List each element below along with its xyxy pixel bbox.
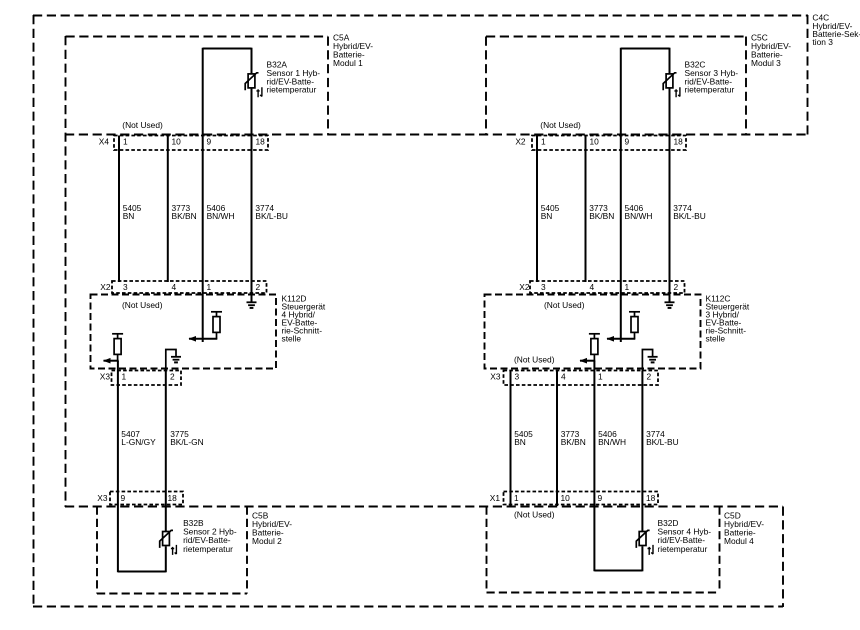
battery module box C5C (486, 36, 746, 38)
battery section inner boundary left vertical (65, 36, 67, 507)
wire 3775 BK/L-GN upper segment (165, 371, 167, 532)
sensor loop top wire C5C (621, 48, 670, 50)
wire 3773 BK/BN lower right (556, 371, 558, 506)
svg-text:(Not Used): (Not Used) (122, 300, 163, 310)
svg-text:2: 2 (647, 372, 652, 382)
connector X2 left (112, 281, 267, 293)
svg-text:X3: X3 (97, 493, 108, 503)
svg-text:X1: X1 (490, 493, 501, 503)
ground symbol inside K112D under X2 pin 2 (247, 301, 257, 303)
battery section box C4C outer frame right edge (807, 15, 809, 135)
wire 3774 BK/L-BU pin18 upper segment right (669, 48, 671, 74)
svg-text:4: 4 (590, 282, 595, 292)
svg-text:18: 18 (646, 493, 656, 503)
svg-text:(Not Used): (Not Used) (544, 300, 585, 310)
svg-text:Modul 2: Modul 2 (252, 536, 282, 546)
sensor loop top wire C5A (203, 48, 252, 50)
connector X3 upper left (112, 371, 182, 386)
battery module box C5D (486, 507, 488, 593)
battery module box C5B (96, 507, 98, 594)
wire 3774 BK/L-BU pin18 lower segment right (669, 88, 671, 303)
ground symbol inside K112C under X2 pin 2 (665, 301, 675, 303)
svg-text:9: 9 (598, 493, 603, 503)
svg-text:rietemperatur: rietemperatur (183, 544, 233, 554)
connector X1 (504, 492, 659, 505)
svg-text:BN: BN (541, 211, 553, 221)
connector X3 right (504, 371, 659, 386)
svg-text:1: 1 (123, 137, 128, 147)
svg-text:stelle: stelle (282, 334, 302, 344)
wire 3773 BK/BN upper right (585, 136, 587, 283)
svg-text:BK/L-BU: BK/L-BU (673, 211, 706, 221)
wire 3774 BK/L-BU lower right bottom segment (641, 546, 643, 571)
battery section box C4C outer frame left edge (33, 15, 35, 607)
svg-text:X3: X3 (490, 372, 501, 382)
svg-text:X2: X2 (100, 282, 111, 292)
svg-text:Modul 4: Modul 4 (724, 536, 754, 546)
svg-text:tion 3: tion 3 (812, 37, 833, 47)
svg-text:9: 9 (121, 493, 126, 503)
svg-text:1: 1 (625, 282, 630, 292)
connector X3 lower left (110, 492, 183, 505)
svg-text:rietemperatur: rietemperatur (685, 85, 735, 95)
svg-text:X4: X4 (99, 137, 110, 147)
thermistor B32D (639, 532, 646, 546)
wire 3774 BK/L-BU pin18 upper segment (251, 48, 253, 74)
wire 3774 BK/L-BU pin18 lower segment (251, 88, 253, 303)
svg-text:2: 2 (674, 282, 679, 292)
pull-up resistor K112C sense line (629, 311, 640, 313)
battery section box C4C outer frame top edge (33, 15, 808, 17)
svg-text:10: 10 (561, 493, 571, 503)
svg-text:18: 18 (168, 493, 178, 503)
battery module box C5A (66, 36, 329, 38)
wire 3773 BK/BN upper (167, 136, 169, 283)
control module box K112C (485, 295, 701, 369)
svg-text:Modul 3: Modul 3 (751, 58, 781, 68)
signal arrow wire K112D sensor 2 (104, 360, 119, 362)
svg-text:BK/BN: BK/BN (561, 437, 586, 447)
svg-text:BK/L-GN: BK/L-GN (170, 437, 204, 447)
battery section inner boundary right vertical (782, 507, 784, 608)
svg-text:1: 1 (514, 493, 519, 503)
ground symbol K112C near X3 pin 2 (648, 356, 658, 358)
control module box K112D (91, 295, 277, 369)
svg-text:9: 9 (625, 137, 630, 147)
svg-text:BN: BN (123, 211, 135, 221)
svg-text:stelle: stelle (706, 334, 726, 344)
svg-text:1: 1 (598, 372, 603, 382)
connector X2 lower right (530, 281, 685, 293)
ground hook wire K112C near X3 pin 2 (642, 350, 652, 372)
svg-text:1: 1 (207, 282, 212, 292)
svg-text:BN/WH: BN/WH (207, 211, 235, 221)
connector X4 (114, 136, 268, 151)
svg-text:BN/WH: BN/WH (625, 211, 653, 221)
pull-up resistor K112C sensor 4 line (589, 333, 600, 335)
svg-text:10: 10 (590, 137, 600, 147)
battery section inner boundary horizontal lower (65, 506, 783, 508)
svg-text:BK/BN: BK/BN (589, 211, 614, 221)
svg-text:BK/L-BU: BK/L-BU (646, 437, 679, 447)
connector X2 upper right (532, 136, 686, 151)
pull-up resistor K112D sensor 2 line (112, 333, 123, 335)
svg-text:X3: X3 (100, 372, 111, 382)
signal arrow wire K112D sense (189, 338, 217, 340)
svg-text:18: 18 (674, 137, 684, 147)
wire 3775 BK/L-GN lower segment (165, 546, 167, 572)
svg-text:BN/WH: BN/WH (598, 437, 626, 447)
thermistor B32A (248, 74, 255, 88)
svg-text:4: 4 (172, 282, 177, 292)
signal arrow wire K112C sense (607, 338, 635, 340)
svg-text:9: 9 (207, 137, 212, 147)
svg-text:10: 10 (172, 137, 182, 147)
svg-text:1: 1 (541, 137, 546, 147)
svg-text:1: 1 (122, 372, 127, 382)
svg-text:X2: X2 (515, 137, 526, 147)
svg-text:(Not Used): (Not Used) (514, 509, 555, 519)
svg-text:X2: X2 (519, 282, 530, 292)
svg-text:rietemperatur: rietemperatur (658, 544, 708, 554)
thermistor B32C (666, 74, 673, 88)
svg-text:18: 18 (256, 137, 266, 147)
svg-text:Modul 1: Modul 1 (333, 58, 363, 68)
svg-text:4: 4 (561, 372, 566, 382)
battery section inner boundary horizontal upper (65, 134, 808, 136)
svg-text:2: 2 (170, 372, 175, 382)
thermistor B32B (163, 532, 170, 546)
svg-text:(Not Used): (Not Used) (122, 120, 163, 130)
svg-text:2: 2 (256, 282, 261, 292)
wire 5405 BN lower right (510, 371, 512, 506)
wire 5405 BN upper right (536, 136, 538, 283)
svg-text:BK/L-BU: BK/L-BU (255, 211, 288, 221)
wire 5406 BN/WH pin9 vertical right (620, 48, 622, 342)
sensor loop bottom wire C5D (594, 570, 642, 572)
svg-text:3: 3 (123, 282, 128, 292)
svg-text:L-GN/GY: L-GN/GY (121, 437, 156, 447)
wire 3774 BK/L-BU lower right upper segment (641, 371, 643, 532)
svg-text:BN: BN (514, 437, 526, 447)
svg-text:3: 3 (541, 282, 546, 292)
svg-text:rietemperatur: rietemperatur (267, 85, 317, 95)
svg-text:3: 3 (515, 372, 520, 382)
svg-text:(Not Used): (Not Used) (540, 120, 581, 130)
battery section box C4C outer frame bottom edge (33, 606, 783, 608)
sensor loop bottom wire C5B (118, 571, 166, 573)
wire 5407 L-GN/GY (117, 361, 119, 573)
wire 5406 BN/WH pin9 vertical (202, 48, 204, 342)
signal arrow wire K112C sensor 4 (580, 360, 595, 362)
wire 5405 BN upper (118, 136, 120, 283)
pull-up resistor K112D sense line (211, 311, 222, 313)
svg-text:BK/BN: BK/BN (172, 211, 197, 221)
ground hook wire K112D near X3 pin 2 (166, 350, 176, 372)
wire 5406 BN/WH lower right (593, 361, 595, 572)
ground symbol K112D near X3 pin 2 (171, 356, 181, 358)
svg-text:(Not Used): (Not Used) (514, 354, 555, 364)
